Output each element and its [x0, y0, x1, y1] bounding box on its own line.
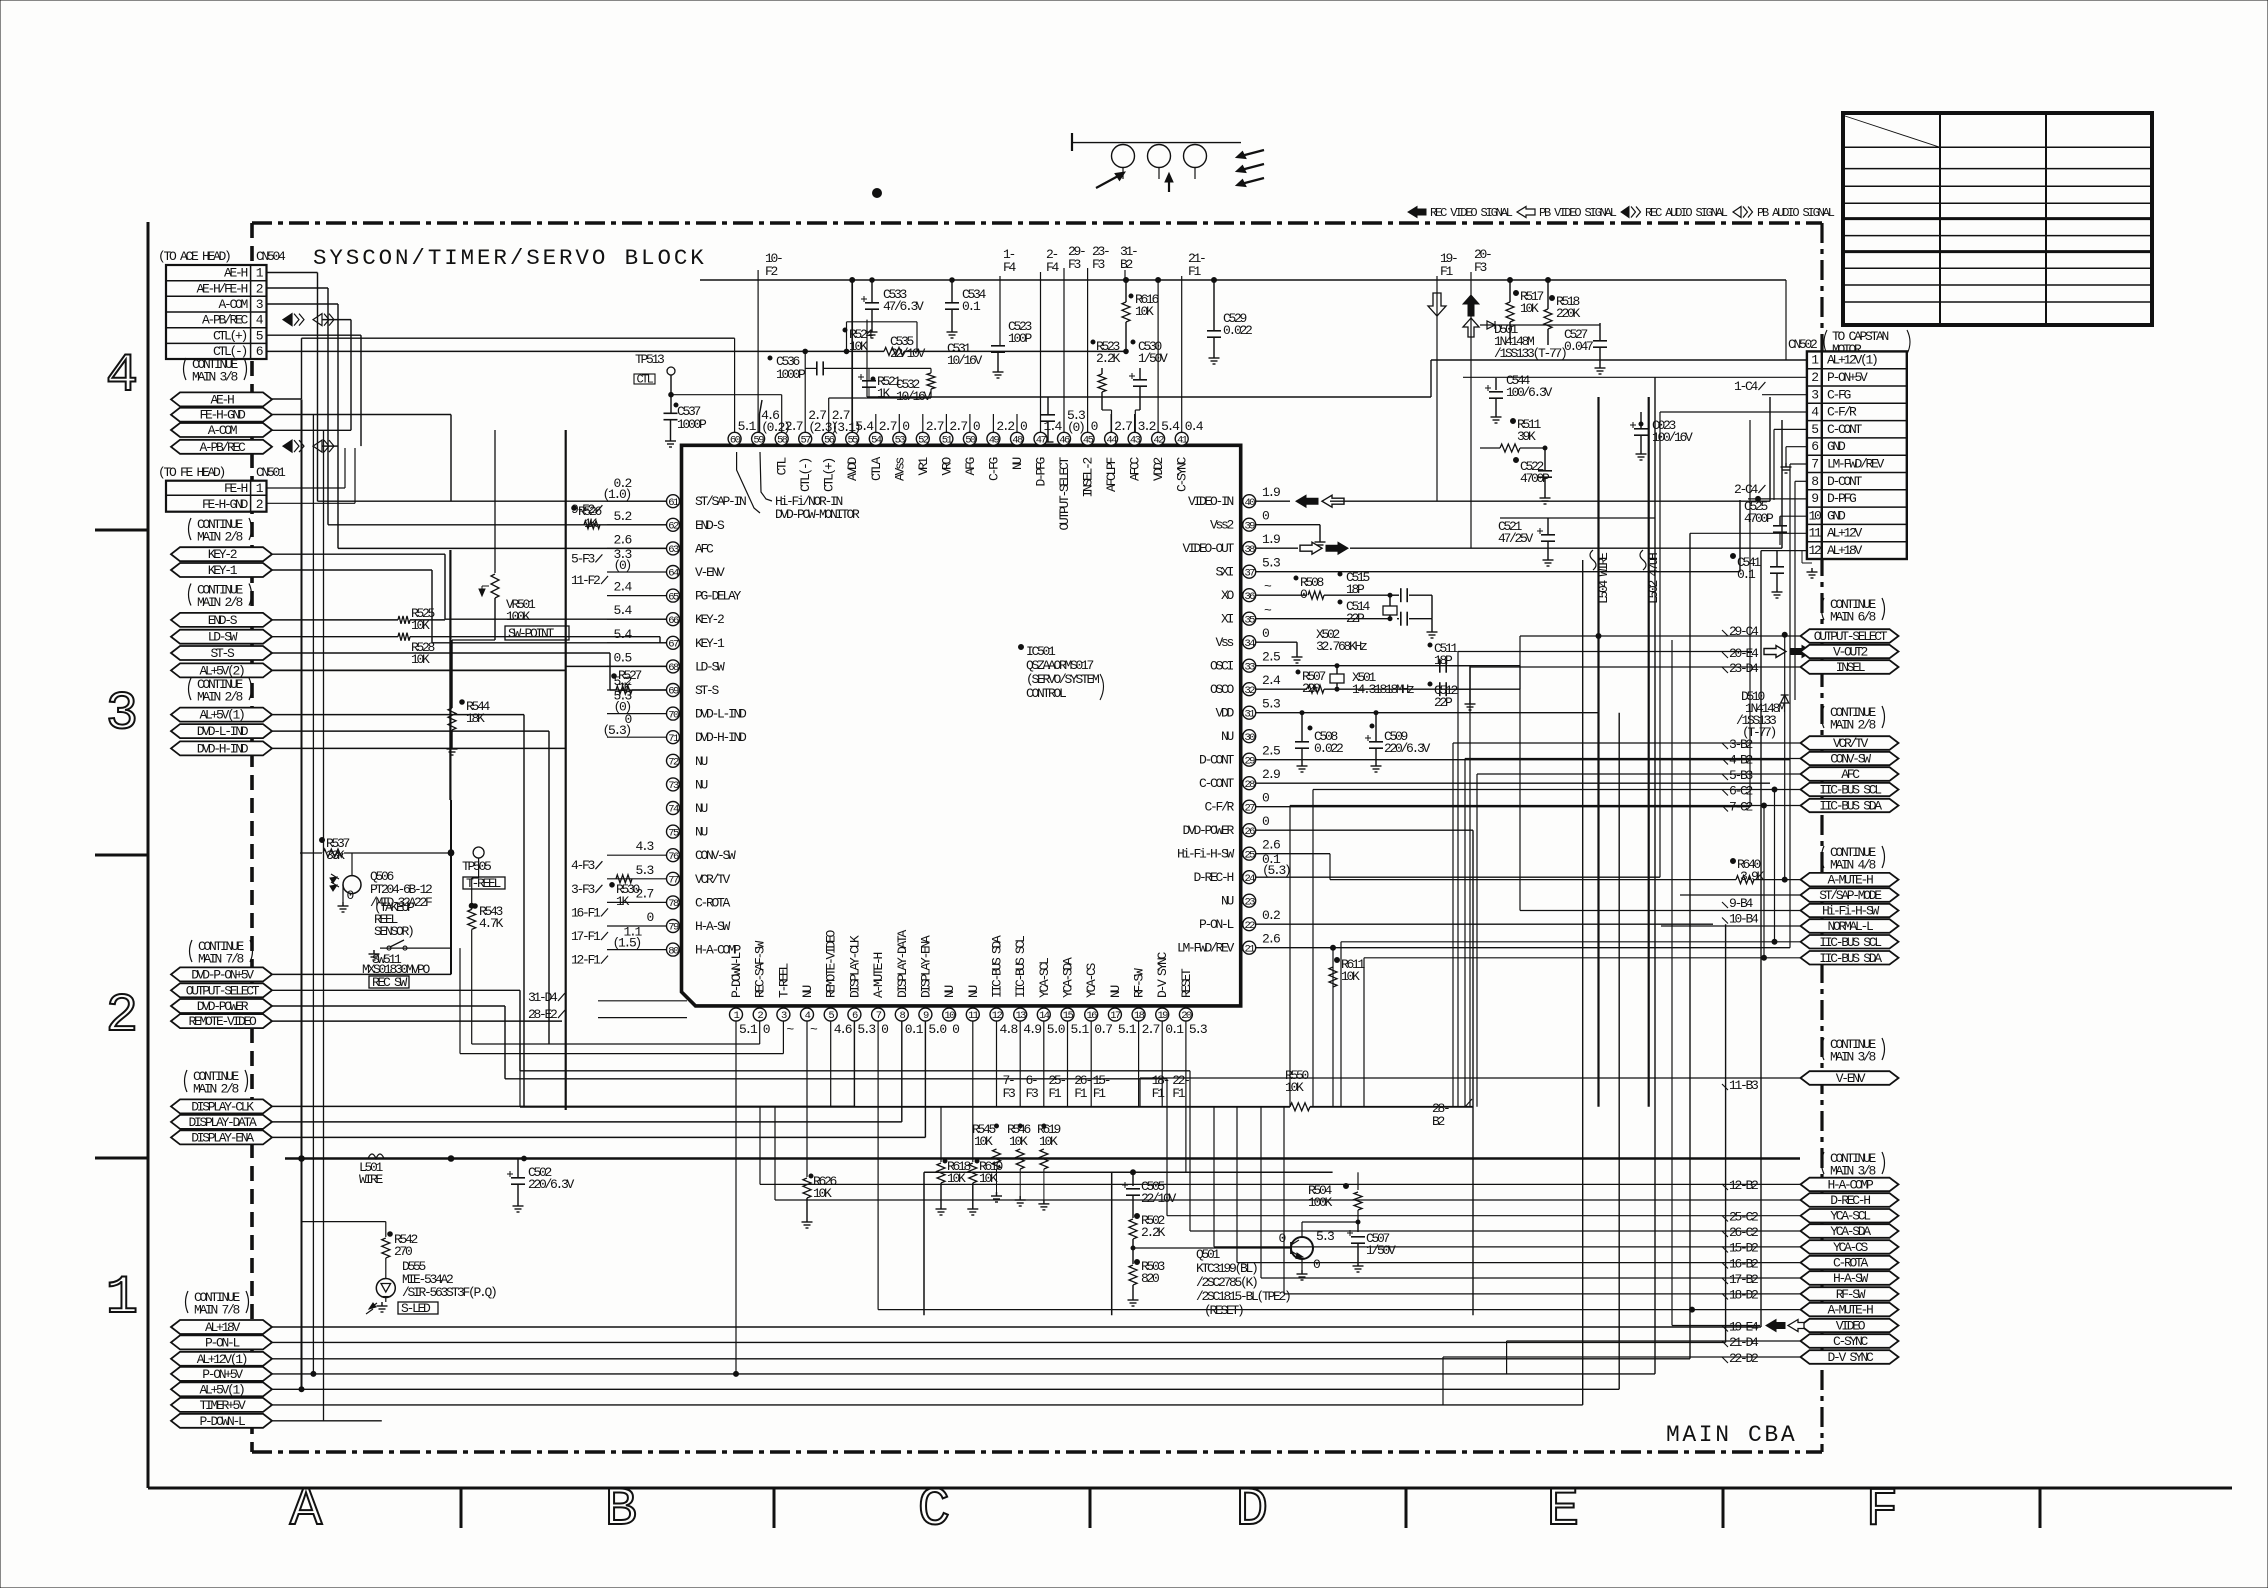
svg-text:IIC-BUS SCL: IIC-BUS SCL	[1819, 935, 1881, 950]
svg-text:51: 51	[942, 435, 953, 447]
svg-text:0.047: 0.047	[1564, 339, 1593, 354]
svg-text:70: 70	[668, 709, 679, 721]
svg-text:DISPLAY-DATA: DISPLAY-DATA	[188, 1115, 257, 1130]
svg-text:47/6.3V: 47/6.3V	[883, 299, 924, 314]
svg-text:35: 35	[1244, 614, 1255, 626]
svg-text:LM-FWD/REV: LM-FWD/REV	[1177, 941, 1235, 956]
svg-text:22P: 22P	[1346, 611, 1365, 626]
svg-text:D-V SYNC: D-V SYNC	[1827, 1350, 1874, 1365]
svg-text:5.3: 5.3	[1262, 556, 1280, 571]
svg-text:F3: F3	[1092, 257, 1105, 272]
svg-text:AE-H: AE-H	[210, 392, 234, 407]
svg-text:100/16V: 100/16V	[1652, 430, 1693, 445]
svg-text:1-C4: 1-C4	[1734, 379, 1759, 394]
svg-text:RF-SW: RF-SW	[1836, 1287, 1866, 1302]
svg-text:21: 21	[1244, 943, 1255, 955]
svg-text:B2: B2	[1432, 1114, 1445, 1129]
svg-text:DVD-H-IND: DVD-H-IND	[197, 741, 249, 756]
svg-text:C-F/R: C-F/R	[1827, 405, 1857, 420]
svg-text:CN501: CN501	[256, 465, 286, 480]
svg-text:2.5: 2.5	[1262, 650, 1280, 665]
svg-text:MAIN 2/8: MAIN 2/8	[197, 595, 243, 610]
svg-text:100P: 100P	[1008, 331, 1033, 346]
svg-text:SXI: SXI	[1215, 565, 1233, 580]
svg-text:12: 12	[1808, 543, 1821, 558]
svg-text:FE-H-GND: FE-H-GND	[202, 497, 249, 512]
svg-text:19-E4: 19-E4	[1729, 1320, 1759, 1335]
svg-text:MAIN CBA: MAIN CBA	[1666, 1422, 1797, 1448]
svg-text:0.1: 0.1	[905, 1022, 924, 1037]
svg-text:Hi-Fi-H-SW: Hi-Fi-H-SW	[1822, 904, 1880, 919]
svg-text:REC VIDEO SIGNAL: REC VIDEO SIGNAL	[1430, 206, 1513, 220]
svg-text:GND: GND	[1827, 439, 1846, 454]
svg-text:(5.3): (5.3)	[602, 723, 630, 738]
svg-text:220: 220	[1302, 681, 1320, 696]
svg-text:C: C	[918, 1480, 950, 1541]
svg-text:15-D2: 15-D2	[1729, 1241, 1758, 1256]
svg-text:2.7: 2.7	[1114, 419, 1132, 434]
svg-text:IIC-BUS SDA: IIC-BUS SDA	[1819, 951, 1882, 966]
svg-text:AE-H/FE-H: AE-H/FE-H	[196, 281, 247, 296]
svg-text:CONV-SW: CONV-SW	[1830, 752, 1871, 767]
svg-text:NU: NU	[800, 985, 815, 998]
svg-text:29-C4: 29-C4	[1729, 624, 1759, 639]
svg-text:ST-S: ST-S	[210, 646, 235, 661]
svg-text:OUTPUT-SELECT: OUTPUT-SELECT	[186, 983, 260, 998]
svg-text:KTC3199(BL): KTC3199(BL)	[1196, 1261, 1257, 1276]
svg-text:5.0: 5.0	[1047, 1022, 1065, 1037]
svg-text:5.3: 5.3	[857, 1022, 875, 1037]
svg-text:(1.5): (1.5)	[612, 936, 640, 951]
svg-text:D-CONT: D-CONT	[1199, 753, 1235, 768]
svg-text:IIC-BUS SCL: IIC-BUS SCL	[1819, 783, 1881, 798]
svg-text:F: F	[1866, 1480, 1898, 1541]
svg-text:2.6: 2.6	[1262, 838, 1280, 853]
svg-text:22P: 22P	[1434, 695, 1453, 710]
svg-text:2.4: 2.4	[613, 580, 632, 595]
svg-text:74: 74	[668, 804, 679, 816]
svg-text:P-ON+5V: P-ON+5V	[1827, 370, 1868, 385]
svg-text:OSCO: OSCO	[1210, 682, 1235, 697]
svg-text:CONV-SW: CONV-SW	[695, 848, 736, 863]
svg-text:69: 69	[668, 686, 679, 698]
svg-text:AFCC: AFCC	[1128, 457, 1143, 482]
svg-text:C-FG: C-FG	[1827, 387, 1851, 402]
svg-text:VIDEO-IN: VIDEO-IN	[1188, 494, 1234, 509]
svg-text:NU: NU	[695, 754, 708, 769]
svg-text:KEY-2: KEY-2	[208, 547, 237, 562]
svg-text:CTL(-): CTL(-)	[798, 459, 813, 493]
svg-text:37: 37	[1244, 567, 1255, 579]
svg-text:VRO: VRO	[939, 457, 954, 476]
svg-text:10K: 10K	[1520, 301, 1539, 316]
svg-text:C-SYNC: C-SYNC	[1175, 457, 1190, 493]
svg-text:0.7: 0.7	[1094, 1022, 1112, 1037]
svg-text:B: B	[605, 1480, 637, 1541]
svg-text:20: 20	[1181, 1010, 1192, 1022]
svg-text:26: 26	[1244, 826, 1255, 838]
svg-text:RF-SW: RF-SW	[1132, 968, 1147, 998]
svg-text:MAIN 3/8: MAIN 3/8	[192, 370, 238, 385]
svg-text:V-OUT2: V-OUT2	[1833, 645, 1868, 660]
svg-text:23: 23	[1244, 896, 1255, 908]
svg-text:CTL(+): CTL(+)	[213, 328, 247, 343]
svg-text:41: 41	[1177, 435, 1188, 447]
svg-text:47: 47	[1036, 435, 1047, 447]
svg-text:65: 65	[668, 591, 679, 603]
svg-text:5-B3: 5-B3	[1729, 768, 1753, 783]
svg-text:14: 14	[1039, 1010, 1050, 1022]
svg-text:36: 36	[1244, 591, 1255, 603]
svg-text:MAIN 4/8: MAIN 4/8	[1830, 858, 1876, 873]
svg-text:9-B4: 9-B4	[1729, 896, 1754, 911]
svg-text:REC SW: REC SW	[372, 975, 408, 990]
svg-text:DVD-POWER: DVD-POWER	[1182, 823, 1234, 838]
svg-text:5.3: 5.3	[1316, 1229, 1334, 1244]
svg-text:L502 47uH: L502 47uH	[1646, 553, 1661, 604]
svg-text:AL+5V(1): AL+5V(1)	[199, 1382, 244, 1397]
svg-text:KEY-2: KEY-2	[695, 612, 724, 627]
svg-text:39K: 39K	[1517, 429, 1536, 444]
svg-text:F3: F3	[1068, 257, 1081, 272]
svg-text:REMOTE-VIDEO: REMOTE-VIDEO	[824, 929, 839, 998]
svg-text:DVD-L-IND: DVD-L-IND	[197, 724, 249, 739]
svg-text:0.022: 0.022	[1314, 741, 1343, 756]
svg-text:50: 50	[965, 435, 976, 447]
svg-text:72: 72	[668, 757, 679, 769]
svg-text:28-E2: 28-E2	[528, 1007, 557, 1022]
svg-text:(SERVO/SYSTEM: (SERVO/SYSTEM	[1026, 672, 1099, 687]
svg-text:(1.0): (1.0)	[602, 487, 630, 502]
svg-text:P-ON-L: P-ON-L	[205, 1335, 240, 1350]
svg-text:D-REC-H: D-REC-H	[1830, 1193, 1870, 1208]
svg-text:CN502: CN502	[1788, 337, 1817, 352]
svg-text:A-PB/REC: A-PB/REC	[202, 313, 249, 328]
svg-text:10K: 10K	[979, 1171, 998, 1186]
svg-text:Q501: Q501	[1196, 1247, 1221, 1262]
svg-text:10-B4: 10-B4	[1729, 912, 1759, 927]
svg-text:V-ENV: V-ENV	[1836, 1071, 1866, 1086]
svg-text:26-C2: 26-C2	[1729, 1225, 1758, 1240]
svg-text:CTL: CTL	[775, 458, 790, 476]
svg-text:5.3: 5.3	[1262, 697, 1280, 712]
svg-text:40: 40	[1244, 497, 1255, 509]
svg-text:18: 18	[1134, 1010, 1145, 1022]
svg-text:AE-H: AE-H	[224, 266, 248, 281]
svg-text:10/16V: 10/16V	[947, 353, 983, 368]
svg-text:33K: 33K	[326, 848, 345, 863]
svg-text:YCA-CS: YCA-CS	[1084, 962, 1099, 998]
svg-text:LD-SW: LD-SW	[208, 630, 238, 645]
svg-text:C-F/R: C-F/R	[1204, 800, 1234, 815]
svg-text:IIC-BUS SDA: IIC-BUS SDA	[990, 935, 1005, 998]
svg-text:44: 44	[1106, 435, 1117, 447]
svg-text:VCR/TV: VCR/TV	[695, 872, 731, 887]
svg-text:2.5: 2.5	[1262, 744, 1280, 759]
svg-text:V-ENV: V-ENV	[695, 565, 725, 580]
svg-text:0.022: 0.022	[1223, 323, 1252, 338]
svg-text:A-MUTE-H: A-MUTE-H	[1827, 1303, 1873, 1318]
svg-text:YCA-SCL: YCA-SCL	[1830, 1209, 1870, 1224]
svg-text:(0): (0)	[1067, 420, 1084, 435]
svg-text:5.2: 5.2	[613, 674, 631, 689]
svg-text:16-F1: 16-F1	[571, 905, 601, 920]
svg-text:PG-DELAY: PG-DELAY	[695, 589, 742, 604]
svg-text:12: 12	[992, 1010, 1003, 1022]
svg-text:2.2K: 2.2K	[1141, 1225, 1166, 1240]
svg-text:OUTPUT-SELECT: OUTPUT-SELECT	[1814, 629, 1888, 644]
svg-text:OSCI: OSCI	[1210, 659, 1234, 674]
svg-text:MAIN 7/8: MAIN 7/8	[198, 952, 244, 967]
svg-text:MAIN 6/8: MAIN 6/8	[1830, 610, 1876, 625]
svg-text:5.3: 5.3	[635, 863, 653, 878]
svg-text:A-COM: A-COM	[218, 297, 247, 312]
svg-text:75: 75	[668, 827, 679, 839]
svg-text:MAIN 2/8: MAIN 2/8	[197, 530, 243, 545]
svg-text:LM-FWD/REV: LM-FWD/REV	[1827, 457, 1885, 472]
svg-text:220K: 220K	[1556, 306, 1581, 321]
svg-text:NU: NU	[966, 985, 981, 998]
svg-text:63: 63	[668, 544, 679, 556]
svg-text:5.4: 5.4	[855, 419, 874, 434]
svg-text:OUTPUT-SELECT: OUTPUT-SELECT	[1057, 457, 1072, 531]
svg-text:AVDD: AVDD	[845, 457, 860, 482]
svg-text:A: A	[290, 1480, 323, 1541]
svg-text:76: 76	[668, 851, 679, 863]
svg-text:MAIN 7/8: MAIN 7/8	[194, 1303, 240, 1318]
svg-text:C-CONT: C-CONT	[1199, 776, 1235, 791]
svg-text:CTL: CTL	[637, 373, 654, 387]
svg-text:11: 11	[968, 1010, 979, 1022]
svg-text:60: 60	[730, 435, 741, 447]
svg-text:P-ON-L: P-ON-L	[1199, 917, 1234, 932]
svg-text:H-A-SW: H-A-SW	[695, 919, 731, 934]
svg-text:30: 30	[1244, 732, 1255, 744]
svg-text:17: 17	[1110, 1010, 1121, 1022]
svg-text:2-C4: 2-C4	[1734, 482, 1759, 497]
svg-text:END-S: END-S	[208, 613, 238, 628]
svg-text:9-F2: 9-F2	[571, 502, 595, 517]
svg-text:NU: NU	[695, 777, 708, 792]
svg-text:4.8: 4.8	[1000, 1022, 1018, 1037]
svg-text:DISPLAY-CLK: DISPLAY-CLK	[847, 935, 862, 998]
svg-text:S-LED: S-LED	[401, 1301, 431, 1316]
svg-text:/2SC2785(K): /2SC2785(K)	[1196, 1275, 1257, 1290]
svg-text:32: 32	[1244, 685, 1255, 697]
svg-text:220/6.3V: 220/6.3V	[1384, 741, 1431, 756]
svg-text:DVD-P-ON+5V: DVD-P-ON+5V	[191, 967, 254, 982]
svg-text:3.2: 3.2	[1138, 419, 1156, 434]
svg-text:CTLA: CTLA	[869, 457, 884, 482]
svg-text:NU: NU	[942, 985, 957, 998]
svg-text:1.9: 1.9	[1262, 485, 1280, 500]
svg-text:61: 61	[668, 497, 679, 509]
svg-text:18-D2: 18-D2	[1729, 1288, 1758, 1303]
svg-text:DISPLAY-CLK: DISPLAY-CLK	[191, 1099, 254, 1114]
svg-text:0.4: 0.4	[1185, 419, 1204, 434]
svg-text:5.1: 5.1	[739, 1022, 758, 1037]
svg-text:A-MUTE-H: A-MUTE-H	[871, 952, 886, 998]
svg-text:55: 55	[847, 435, 858, 447]
svg-text:62: 62	[668, 521, 679, 533]
svg-text:43: 43	[1130, 435, 1141, 447]
svg-text:3-B2: 3-B2	[1729, 737, 1753, 752]
svg-text:AFC: AFC	[1841, 767, 1860, 782]
svg-text:VR1: VR1	[916, 457, 931, 476]
svg-text:15: 15	[1063, 1010, 1074, 1022]
svg-text:100/6.3V: 100/6.3V	[1506, 385, 1553, 400]
svg-text:31: 31	[1244, 708, 1255, 720]
svg-text:MAIN 2/8: MAIN 2/8	[193, 1082, 239, 1097]
svg-text:3-F3: 3-F3	[571, 882, 595, 897]
svg-text:1.9: 1.9	[1262, 532, 1280, 547]
svg-text:(TO FE HEAD): (TO FE HEAD)	[158, 465, 225, 480]
svg-text:1: 1	[106, 1268, 138, 1329]
svg-text:18P: 18P	[1346, 582, 1365, 597]
svg-text:47/25V: 47/25V	[1498, 531, 1534, 546]
svg-text:49: 49	[989, 435, 1000, 447]
svg-text:TIMER+5V: TIMER+5V	[199, 1398, 246, 1413]
svg-text:MAIN 3/8: MAIN 3/8	[1830, 1164, 1876, 1179]
svg-text:C-CONT: C-CONT	[1827, 422, 1863, 437]
svg-text:NU: NU	[1010, 458, 1025, 471]
svg-text:MAIN 2/8: MAIN 2/8	[1830, 718, 1876, 733]
svg-text:DISPLAY-DATA: DISPLAY-DATA	[895, 929, 910, 998]
svg-text:17-F1: 17-F1	[571, 929, 601, 944]
svg-text:D-V SYNC: D-V SYNC	[1155, 951, 1170, 998]
svg-text:IIC-BUS SCL: IIC-BUS SCL	[1013, 936, 1028, 998]
svg-text:4-B2: 4-B2	[1729, 753, 1753, 768]
svg-text:P-ON+5V: P-ON+5V	[202, 1367, 243, 1382]
svg-text:20-E4: 20-E4	[1729, 646, 1759, 661]
svg-text:AL+5V(1): AL+5V(1)	[199, 708, 244, 723]
svg-text:7-C2: 7-C2	[1729, 800, 1753, 815]
svg-text:Hi-Fi-H-SW: Hi-Fi-H-SW	[1177, 847, 1235, 862]
svg-text:GND: GND	[1827, 508, 1846, 523]
svg-text:2.4: 2.4	[1262, 673, 1281, 688]
svg-text:22/10V: 22/10V	[1141, 1191, 1177, 1206]
svg-text:48: 48	[1012, 435, 1023, 447]
svg-text:80: 80	[668, 945, 679, 957]
svg-text:AL+12V(1): AL+12V(1)	[1827, 353, 1877, 368]
svg-text:21-D4: 21-D4	[1729, 1335, 1759, 1350]
svg-text:KEY-1: KEY-1	[695, 636, 725, 651]
svg-text:F2: F2	[765, 264, 778, 279]
svg-text:14.31818MHz: 14.31818MHz	[1352, 682, 1414, 697]
svg-text:END-S: END-S	[695, 518, 725, 533]
svg-text:2: 2	[106, 986, 138, 1047]
svg-text:10K: 10K	[947, 1171, 966, 1186]
svg-text:100K: 100K	[506, 609, 531, 624]
svg-text:VIDEO: VIDEO	[1836, 1319, 1866, 1334]
svg-text:(0): (0)	[613, 558, 630, 573]
svg-text:YCA-SCL: YCA-SCL	[1037, 958, 1052, 998]
svg-text:39: 39	[1244, 520, 1255, 532]
svg-text:10K: 10K	[813, 1186, 832, 1201]
svg-text:45: 45	[1083, 435, 1094, 447]
svg-text:4.7K: 4.7K	[479, 916, 504, 931]
svg-text:CONTROL: CONTROL	[1026, 686, 1066, 701]
svg-text:A-COM: A-COM	[208, 423, 237, 438]
svg-text:NU: NU	[1221, 729, 1234, 744]
svg-text:(5.3): (5.3)	[1262, 863, 1290, 878]
svg-text:/SIR-563ST3F(P.Q): /SIR-563ST3F(P.Q)	[402, 1285, 496, 1300]
svg-text:12-F1: 12-F1	[571, 953, 601, 968]
svg-text:10K: 10K	[974, 1134, 993, 1149]
svg-text:0.1: 0.1	[962, 299, 981, 314]
svg-text:MAIN 2/8: MAIN 2/8	[197, 690, 243, 705]
svg-text:1/50V: 1/50V	[1366, 1243, 1396, 1258]
svg-text:NU: NU	[1221, 894, 1234, 909]
svg-text:F3: F3	[1474, 260, 1487, 275]
svg-text:33: 33	[1244, 661, 1255, 673]
svg-text:TP505: TP505	[462, 859, 491, 874]
svg-text:YCA-SDA: YCA-SDA	[1830, 1224, 1871, 1239]
svg-text:58: 58	[777, 435, 788, 447]
svg-text:79: 79	[668, 922, 679, 934]
svg-text:5.4: 5.4	[1161, 419, 1180, 434]
svg-text:P-DOWN-L: P-DOWN-L	[199, 1414, 245, 1429]
svg-text:D: D	[1236, 1480, 1268, 1541]
svg-text:28: 28	[1244, 779, 1255, 791]
svg-text:4700P: 4700P	[1744, 511, 1774, 526]
svg-text:AL+18V: AL+18V	[1827, 543, 1863, 558]
svg-text:C-SYNC: C-SYNC	[1833, 1334, 1869, 1349]
svg-text:ST/SAP-IN: ST/SAP-IN	[695, 494, 746, 509]
svg-text:VDD2: VDD2	[1151, 458, 1166, 482]
svg-text:22/10V: 22/10V	[890, 346, 926, 361]
svg-text:68: 68	[668, 662, 679, 674]
svg-text:71: 71	[668, 733, 679, 745]
svg-text:B2: B2	[1120, 257, 1133, 272]
svg-text:AL+12V: AL+12V	[1827, 526, 1863, 541]
svg-text:12-B2: 12-B2	[1729, 1178, 1758, 1193]
svg-text:E: E	[1547, 1480, 1579, 1541]
svg-text:10K: 10K	[411, 618, 430, 633]
svg-text:2.2: 2.2	[996, 419, 1014, 434]
svg-text:38: 38	[1244, 544, 1255, 556]
svg-text:AL+18V: AL+18V	[205, 1320, 241, 1335]
svg-text:(TO ACE HEAD): (TO ACE HEAD)	[158, 249, 230, 264]
svg-text:VCR/TV: VCR/TV	[1833, 736, 1869, 751]
svg-text:17-B2: 17-B2	[1729, 1272, 1758, 1287]
svg-text:5.1: 5.1	[1071, 1022, 1090, 1037]
svg-text:5.1: 5.1	[1118, 1022, 1137, 1037]
svg-text:(RESET): (RESET)	[1204, 1303, 1243, 1318]
svg-text:32.768KHz: 32.768KHz	[1316, 639, 1367, 654]
svg-text:53: 53	[895, 435, 906, 447]
svg-text:2.7: 2.7	[1142, 1022, 1160, 1037]
svg-text:3.9K: 3.9K	[1740, 869, 1765, 884]
svg-text:11-B3: 11-B3	[1729, 1078, 1758, 1093]
svg-text:3: 3	[106, 684, 138, 745]
svg-text:2.7: 2.7	[926, 419, 944, 434]
svg-text:XI: XI	[1221, 612, 1234, 627]
svg-text:100K: 100K	[1308, 1195, 1333, 1210]
svg-text:AFCLPF: AFCLPF	[1104, 458, 1119, 493]
svg-text:PB AUDIO SIGNAL: PB AUDIO SIGNAL	[1757, 206, 1835, 220]
svg-text:13: 13	[1015, 1010, 1026, 1022]
svg-text:5.4: 5.4	[613, 627, 632, 642]
svg-text:DVD-H-IND: DVD-H-IND	[695, 730, 747, 745]
svg-text:C-ROTA: C-ROTA	[1833, 1256, 1869, 1271]
svg-text:/1SS133(T-77): /1SS133(T-77)	[1494, 346, 1566, 361]
svg-text:NU: NU	[1108, 985, 1123, 998]
svg-text:46: 46	[1059, 435, 1070, 447]
svg-text:T-REEL: T-REEL	[776, 963, 791, 998]
svg-text:42: 42	[1153, 435, 1164, 447]
svg-text:5.3: 5.3	[1189, 1022, 1207, 1037]
